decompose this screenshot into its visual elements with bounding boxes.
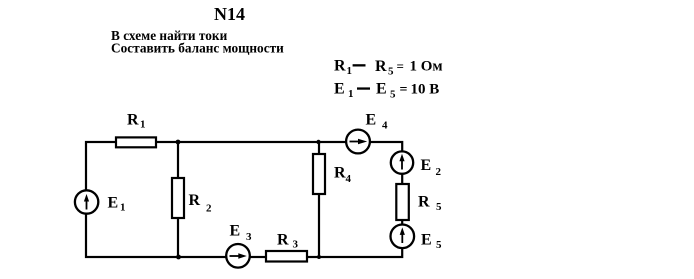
svg-text:N14: N14	[214, 4, 245, 24]
svg-text:R2: R2	[189, 192, 213, 215]
svg-text:R5: R5	[418, 194, 442, 214]
svg-text:E1E5=10 В: E1E5=10 В	[334, 81, 439, 101]
svg-text:E3: E3	[230, 223, 253, 244]
svg-text:R4: R4	[334, 165, 352, 186]
svg-text:E2: E2	[421, 157, 442, 178]
svg-text:R1: R1	[127, 112, 146, 131]
svg-text:E4: E4	[366, 112, 389, 132]
svg-text:R1R5=1 Ом: R1R5=1 Ом	[334, 58, 443, 78]
svg-text:E1: E1	[108, 195, 126, 214]
svg-text:Составить баланс мощности: Составить баланс мощности	[111, 41, 284, 56]
svg-text:R3: R3	[277, 232, 299, 251]
svg-text:E5: E5	[421, 232, 442, 252]
